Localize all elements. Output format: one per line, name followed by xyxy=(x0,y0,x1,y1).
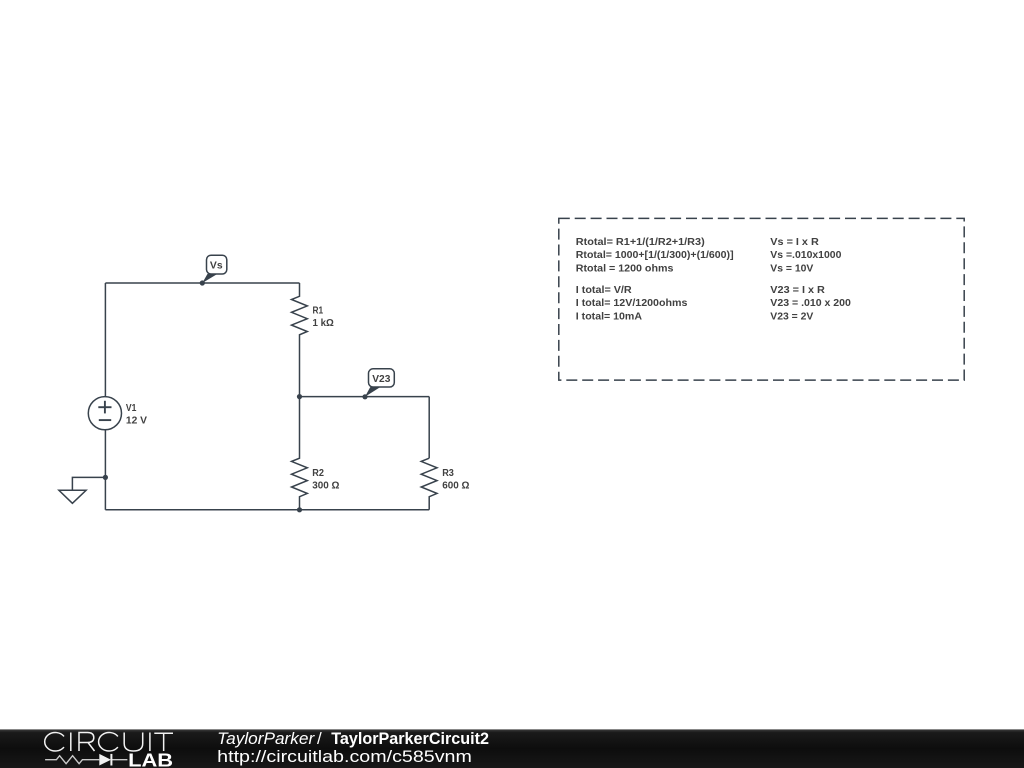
svg-text:R2: R2 xyxy=(312,468,324,479)
svg-text:R1: R1 xyxy=(313,306,324,317)
annotation dashed box xyxy=(559,218,964,380)
label R2 value xyxy=(312,468,339,492)
svg-text:V1: V1 xyxy=(126,403,137,414)
svg-text:V23 = I x R: V23 = I x R xyxy=(770,285,825,296)
wire: middle horizontal node 2 to R3 xyxy=(300,396,430,398)
wire: left vertical lower (V1 bottom lead) xyxy=(104,430,106,510)
svg-text:Vs: Vs xyxy=(210,261,223,272)
junction dot node Vs xyxy=(200,280,205,285)
svg-text:V23: V23 xyxy=(372,374,390,385)
node V23 flag xyxy=(365,369,394,397)
wire: top horizontal from V1 to R1 xyxy=(105,282,299,284)
svg-text:Rtotal= 1000+[1/(1/300)+(1/600: Rtotal= 1000+[1/(1/300)+(1/600)] xyxy=(576,250,734,261)
node Vs flag xyxy=(202,255,227,283)
svg-text:I total= V/R: I total= V/R xyxy=(576,285,633,296)
logo resistor-diode glyph xyxy=(45,756,127,764)
resistor R1 xyxy=(292,283,308,397)
svg-text:TaylorParker: TaylorParker xyxy=(217,729,315,748)
resistor R2 xyxy=(292,397,308,510)
svg-text:Vs = I x R: Vs = I x R xyxy=(770,237,819,248)
wire: left vertical upper (V1 top lead) xyxy=(104,283,106,397)
junction dot bottom node (R2 bottom) xyxy=(297,507,302,512)
wire: R3 top lead xyxy=(428,397,430,459)
svg-text:Vs =.010x1000: Vs =.010x1000 xyxy=(770,250,841,261)
wire: ground tap from V1 negative node xyxy=(72,477,105,490)
label R1 value xyxy=(313,306,334,329)
svg-text:TaylorParkerCircuit2: TaylorParkerCircuit2 xyxy=(331,729,489,748)
svg-text:600 Ω: 600 Ω xyxy=(442,480,469,491)
wire: bottom horizontal xyxy=(105,509,429,511)
resistor R3 xyxy=(421,458,437,510)
svg-text:I total= 12V/1200ohms: I total= 12V/1200ohms xyxy=(576,298,688,309)
svg-text:12 V: 12 V xyxy=(126,415,147,426)
svg-text:300 Ω: 300 Ω xyxy=(312,480,339,491)
logo CIRCUIT wordmark xyxy=(45,733,173,752)
annotation text left column xyxy=(576,237,734,323)
svg-text:Vs = 10V: Vs = 10V xyxy=(770,263,813,274)
svg-text:R3: R3 xyxy=(442,468,454,479)
junction dot ground node xyxy=(103,475,108,480)
label R3 value xyxy=(442,468,469,492)
svg-text:/: / xyxy=(317,729,322,748)
svg-text:V23 = .010 x 200: V23 = .010 x 200 xyxy=(770,298,851,309)
svg-text:Rtotal= R1+1/(1/R2+1/R3): Rtotal= R1+1/(1/R2+1/R3) xyxy=(576,237,705,248)
svg-text:http://circuitlab.com/c585vnm: http://circuitlab.com/c585vnm xyxy=(217,747,472,766)
ground xyxy=(59,490,86,503)
svg-text:Rtotal = 1200 ohms: Rtotal = 1200 ohms xyxy=(576,263,674,274)
svg-text:LAB: LAB xyxy=(128,750,173,768)
junction dot node V23 xyxy=(362,394,367,399)
svg-text:1 kΩ: 1 kΩ xyxy=(313,318,334,329)
label V1 value xyxy=(126,403,147,427)
svg-text:V23 = 2V: V23 = 2V xyxy=(770,312,813,323)
junction dot node 2 (R1/R2 join) xyxy=(297,394,302,399)
svg-text:I total= 10mA: I total= 10mA xyxy=(576,312,643,323)
annotation text right column xyxy=(770,237,851,323)
voltage source V1 xyxy=(88,397,121,430)
